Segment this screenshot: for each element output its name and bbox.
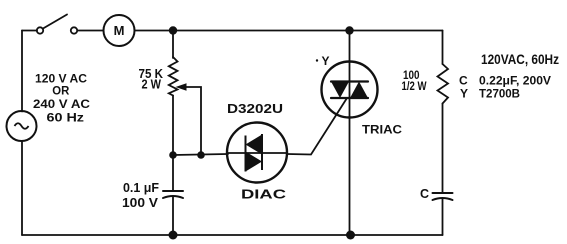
wire node to diac xyxy=(173,154,228,155)
svg-text:Y: Y xyxy=(460,87,468,101)
wire left vertical lower xyxy=(21,141,23,235)
triac right triangle xyxy=(350,82,368,99)
potentiometer wiper arrowhead xyxy=(176,83,187,91)
svg-text:240 V AC: 240 V AC xyxy=(33,97,90,111)
resistor 100 1/2W (zigzag) xyxy=(438,64,449,104)
svg-text:T2700B: T2700B xyxy=(479,87,520,101)
node Y leader dot xyxy=(316,59,318,61)
AC sine symbol xyxy=(15,123,29,129)
wire pot top lead xyxy=(172,31,174,59)
capacitor 0.1uF 100V xyxy=(163,191,183,198)
wiper wire xyxy=(180,87,201,155)
wire right vertical mid xyxy=(442,104,444,194)
wire motor to top-right corner xyxy=(135,30,443,32)
potentiometer 75K 2W (zigzag) xyxy=(169,57,178,96)
node pot-top junction xyxy=(169,26,177,34)
node triac-top junction xyxy=(345,26,353,34)
triac circle xyxy=(322,62,378,118)
node wiper junction xyxy=(197,151,205,159)
svg-text:2 W: 2 W xyxy=(142,77,162,92)
triac top bar xyxy=(331,80,368,82)
wire left vertical upper xyxy=(21,31,23,112)
node cap-bottom junction xyxy=(169,231,178,240)
wire diac to triac gate xyxy=(287,98,347,155)
wire cap 0.1uF bottom lead xyxy=(172,197,174,235)
svg-text:TRIAC: TRIAC xyxy=(362,123,402,137)
wire right vertical bottom xyxy=(442,199,444,235)
svg-text:100 V: 100 V xyxy=(122,195,158,210)
wire pot bottom lead xyxy=(172,96,174,156)
svg-text:C: C xyxy=(420,187,429,201)
capacitor C xyxy=(433,193,453,200)
svg-text:D3202U: D3202U xyxy=(227,102,283,116)
svg-text:OR: OR xyxy=(52,84,69,98)
AC source xyxy=(7,111,37,141)
triac bottom bar xyxy=(331,97,368,99)
svg-text:60 Hz: 60 Hz xyxy=(47,111,85,125)
node pot-bottom junction xyxy=(169,151,177,159)
switch S (open) xyxy=(37,15,77,34)
svg-text:M: M xyxy=(114,23,125,38)
svg-text:0.1 μF: 0.1 μF xyxy=(123,180,159,195)
wire switch to motor xyxy=(78,30,104,32)
svg-text:C: C xyxy=(459,74,468,88)
svg-text:Y: Y xyxy=(322,54,330,68)
svg-text:1/2 W: 1/2 W xyxy=(402,79,428,93)
diac lower triangle xyxy=(246,152,263,172)
wire cap 0.1uF top lead xyxy=(172,155,174,191)
diac internal leads xyxy=(228,152,287,154)
diac D3202U circle xyxy=(227,123,287,183)
diac right bar xyxy=(261,134,263,170)
diac left bar xyxy=(245,136,247,172)
wire top-left segment xyxy=(22,30,37,32)
triac left triangle xyxy=(331,82,349,99)
svg-text:120VAC, 60Hz: 120VAC, 60Hz xyxy=(481,51,559,67)
motor M xyxy=(104,15,135,46)
svg-text:0.22μF, 200V: 0.22μF, 200V xyxy=(479,74,551,88)
wire triac vertical xyxy=(349,31,351,236)
wire bottom xyxy=(22,234,443,236)
svg-text:DIAC: DIAC xyxy=(241,188,286,202)
node triac-bottom junction xyxy=(346,231,355,240)
diac upper triangle xyxy=(246,135,263,155)
wire right vertical top xyxy=(442,31,444,65)
